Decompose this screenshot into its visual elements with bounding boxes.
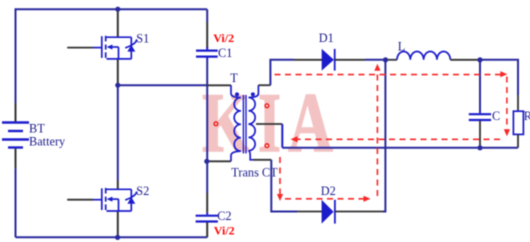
svg-text:S1: S1 bbox=[136, 32, 149, 46]
wire: left rail black segment above battery bbox=[15, 103, 17, 122]
wire: top output run black to D1 bbox=[294, 59, 322, 61]
diode D2 bbox=[322, 200, 334, 224]
wire: left rail black segment below battery bbox=[15, 149, 17, 169]
svg-text:K: K bbox=[202, 75, 249, 170]
wire: D2 cathode black bbox=[335, 211, 383, 213]
wire: L to node B bbox=[450, 59, 480, 61]
svg-text:C2: C2 bbox=[217, 209, 231, 223]
capacitor C bbox=[469, 114, 491, 120]
wire: D2 up to node A bbox=[383, 60, 385, 212]
wire: secondary bottom black bbox=[253, 159, 271, 161]
current path: return left dashed bbox=[296, 138, 500, 140]
wire: node B to R top bbox=[480, 60, 518, 95]
polarity mark o secondary upper bbox=[265, 104, 269, 108]
capacitor C1 bbox=[196, 51, 218, 57]
current path: D1 loop top dashed bbox=[275, 74, 502, 76]
transformer secondary winding upper bbox=[249, 85, 259, 124]
diode D1 bbox=[322, 49, 334, 71]
junction dot top rail bbox=[115, 7, 120, 12]
resistor R bbox=[513, 111, 523, 134]
current path arrow right (top) bbox=[500, 71, 507, 77]
svg-text:D1: D1 bbox=[319, 31, 334, 45]
wire: left rail lower blue segment bbox=[15, 168, 17, 237]
wire: primary bottom to divider node bbox=[208, 160, 231, 162]
wire: top rail bbox=[16, 9, 208, 103]
wire: D1 to node A bbox=[335, 59, 365, 61]
wire: midpoint to primary bbox=[118, 84, 207, 86]
svg-text:BT: BT bbox=[29, 121, 45, 135]
wire: C bottom to return node bbox=[479, 121, 481, 148]
current path: up to node A dashed bbox=[376, 69, 378, 196]
capacitor C2 bbox=[196, 216, 218, 222]
svg-text:C1: C1 bbox=[218, 46, 232, 60]
current path: right side down dashed bbox=[506, 77, 508, 131]
junction dot midpoint bbox=[115, 83, 120, 88]
svg-text:Vi/2: Vi/2 bbox=[213, 31, 234, 45]
svg-text:I: I bbox=[258, 76, 281, 170]
junction dot node A bbox=[383, 57, 388, 62]
junction dot return node bbox=[477, 145, 482, 150]
wire: D2 anode black bbox=[297, 211, 322, 213]
current path: D2 loop right dashed bbox=[285, 198, 365, 200]
current path arrow down (center tap) bbox=[277, 194, 283, 201]
wire: capacitor divider vertical bbox=[206, 9, 208, 237]
polarity dot secondary bbox=[251, 92, 255, 96]
svg-text:Vi/2: Vi/2 bbox=[214, 224, 235, 238]
wire: center tap black bbox=[256, 123, 282, 125]
transformer core bbox=[242, 95, 244, 154]
wire: secondary top riser bbox=[270, 60, 294, 85]
svg-text:S2: S2 bbox=[136, 184, 149, 198]
mosfet S1 bbox=[67, 36, 137, 59]
wire: R bottom stub bbox=[517, 134, 519, 147]
wire: midpoint node to S2 drain bbox=[117, 85, 119, 180]
current path arrow down (right) bbox=[504, 129, 510, 136]
svg-text:Battery: Battery bbox=[29, 134, 66, 148]
junction dot node B bbox=[477, 57, 482, 62]
mosfet S2 bbox=[67, 188, 137, 211]
watermark KIA bbox=[202, 75, 333, 170]
current path arrow left (return) bbox=[291, 136, 298, 142]
battery BT bbox=[2, 123, 29, 148]
svg-text:L: L bbox=[398, 39, 406, 53]
polarity mark o primary bbox=[214, 122, 218, 126]
current path: center tap down dashed bbox=[279, 157, 281, 196]
junction dot divider node bbox=[204, 159, 209, 164]
wire: half-bridge vertical black top (to S1 drain) bbox=[117, 9, 119, 37]
wire: S2 source to bottom rail bbox=[117, 211, 119, 237]
polarity dot primary bbox=[235, 92, 239, 96]
wire: node B down to C bbox=[479, 60, 481, 111]
transformer secondary winding lower bbox=[249, 124, 256, 151]
wire: secondary top step black bbox=[258, 84, 270, 86]
wire: D2 branch left riser bbox=[271, 160, 297, 212]
current path arrow up (node A) bbox=[374, 64, 380, 71]
wire: S1 source to midpoint node bbox=[117, 59, 119, 85]
inductor L bbox=[397, 51, 450, 59]
transformer T primary winding bbox=[231, 85, 241, 161]
svg-text:T: T bbox=[230, 71, 238, 85]
junction dot bottom rail bbox=[115, 235, 120, 240]
svg-text:C: C bbox=[492, 109, 500, 123]
polarity mark o secondary lower bbox=[265, 144, 269, 148]
svg-text:R: R bbox=[524, 109, 530, 123]
svg-text:D2: D2 bbox=[321, 184, 336, 198]
wire: secondary bottom elbow bbox=[249, 151, 254, 160]
wire: center tap riser bbox=[281, 124, 283, 148]
wire: node A to L bbox=[386, 59, 398, 61]
svg-text:A: A bbox=[288, 77, 333, 171]
current path arrow right (D2) bbox=[364, 196, 371, 202]
wire: bottom rail bbox=[16, 236, 208, 238]
wire: return rail bbox=[282, 147, 518, 149]
